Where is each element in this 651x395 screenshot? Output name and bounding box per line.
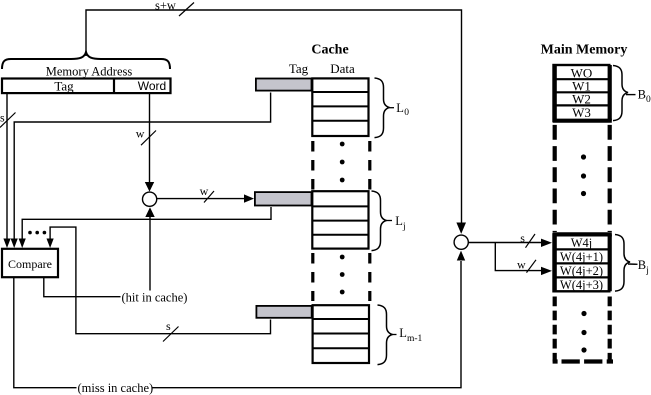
svg-text:L: L (395, 214, 403, 228)
wire circle2 to W4j (469, 242, 542, 244)
arrowhead into W4j (541, 239, 552, 247)
arrowhead into compare input 2 (11, 239, 18, 249)
svg-text:w: w (136, 127, 145, 141)
arrowhead up into circle2 (457, 251, 465, 261)
cache dashed column gap1 left (311, 141, 314, 190)
dots memory lower (581, 311, 586, 353)
label Lj (387, 220, 393, 222)
wire s from tag field to compare (6, 94, 8, 240)
arrowhead down into circle2 (from s+w line) (456, 223, 466, 234)
svg-text:W3: W3 (572, 105, 591, 120)
memory dashed bottom line (553, 359, 613, 363)
svg-text:j: j (402, 222, 406, 232)
cache dashed column gap1 right (368, 141, 371, 190)
gate circle2 (454, 235, 468, 249)
arrowhead into compare input 1 (3, 239, 10, 249)
svg-text:0: 0 (404, 108, 409, 118)
svg-text:W(4j+2): W(4j+2) (560, 264, 603, 278)
label B0 (638, 88, 651, 106)
cache line Lm-1 tag box (256, 306, 311, 318)
svg-text:Tag: Tag (54, 79, 74, 94)
svg-text:Compare: Compare (8, 257, 52, 271)
memory dashed column upper left (553, 125, 557, 232)
slash on upper out (526, 234, 536, 248)
slash on s wire (0, 113, 16, 128)
slash on Lm-1 s wire (163, 327, 179, 342)
svg-text:s: s (166, 319, 171, 333)
svg-text:s: s (520, 231, 525, 245)
arrowhead up into circle1 (145, 207, 154, 217)
wire miss to circle2 (153, 261, 462, 388)
dots cache gap2 (340, 255, 345, 295)
brace L0 (375, 78, 390, 138)
memory address register box (2, 79, 171, 94)
cache line L0 tag box (256, 79, 312, 91)
svg-text:0: 0 (646, 95, 651, 105)
wire from Lj tag to compare input 3 (22, 207, 271, 239)
wire hit to circle1 (149, 217, 151, 291)
svg-text:L: L (399, 326, 407, 340)
label L0 (390, 107, 395, 109)
cache dashed column gap2 left (311, 253, 314, 301)
svg-text:m-1: m-1 (407, 334, 423, 344)
svg-text:W(4j+1): W(4j+1) (560, 250, 603, 264)
slash on circle1 out wire (204, 191, 214, 203)
memory dashed column lower left (553, 297, 557, 362)
svg-text:w: w (200, 184, 209, 198)
memory dashed column upper right (608, 125, 612, 232)
svg-text:Memory Address: Memory Address (46, 65, 133, 79)
label Lm-1 (393, 334, 397, 336)
wire s+w top line (86, 10, 462, 223)
arrowhead into Lj tag (244, 194, 254, 202)
svg-text:(miss in cache): (miss in cache) (78, 381, 154, 395)
cache line Lj data block (312, 191, 368, 248)
svg-text:B: B (638, 258, 646, 272)
svg-text:Main Memory: Main Memory (541, 43, 628, 58)
svg-text:W(4j+3): W(4j+3) (560, 278, 603, 292)
dots between compare inputs (28, 231, 46, 235)
memory block B0 box (553, 65, 612, 121)
svg-text:Cache: Cache (311, 43, 348, 58)
cache line L0 data block (312, 78, 368, 136)
slash on lower out (527, 260, 537, 273)
svg-text:Word: Word (138, 79, 166, 93)
slash on s+w line (179, 3, 194, 17)
dots memory upper (581, 154, 586, 196)
svg-text:j: j (645, 266, 649, 276)
label Bj (638, 258, 649, 276)
tick brace B0 to label (626, 94, 636, 96)
svg-text:W4j: W4j (571, 236, 593, 250)
tick brace Bj to label (628, 263, 638, 265)
brace over memory address (2, 52, 170, 69)
svg-text:s: s (0, 111, 5, 125)
brace B0 (613, 66, 628, 121)
arrowhead down into circle1 (145, 182, 154, 192)
brace Bj (615, 235, 630, 292)
wire from L0 tag to compare input 2 (14, 93, 270, 240)
memory dashed column lower right (608, 297, 612, 362)
memory block Bj box (553, 234, 612, 291)
wire circle1 to Lj tag (157, 198, 245, 200)
wire from Lm-1 tag to compare input 4 (50, 227, 270, 334)
svg-text:Data: Data (330, 61, 355, 76)
brace Lm-1 (378, 305, 393, 365)
cache line Lm-1 data block (313, 305, 369, 363)
dots cache gap1 (340, 142, 345, 183)
svg-text:w: w (517, 258, 526, 272)
wire circle2 branch to W(4j+2) (495, 243, 542, 271)
cache line Lj tag box (255, 192, 312, 205)
slash on word wire (141, 131, 156, 146)
cache dashed column gap2 right (368, 253, 371, 301)
gate circle1 (143, 192, 157, 206)
svg-text:Tag: Tag (289, 61, 309, 76)
wire miss in cache (14, 278, 77, 388)
arrowhead into compare input 4 (47, 239, 54, 249)
arrowhead into W(4j+2) (541, 267, 552, 275)
svg-text:L: L (396, 101, 404, 115)
brace Lj (372, 191, 387, 251)
svg-text:B: B (638, 88, 646, 102)
arrowhead into compare input 3 (19, 239, 26, 249)
wire w from word field to circle1 (149, 94, 151, 183)
svg-text:s+w: s+w (155, 0, 176, 13)
wire hit in cache (44, 278, 121, 297)
svg-text:(hit in cache): (hit in cache) (122, 291, 188, 305)
compare box (2, 249, 58, 277)
